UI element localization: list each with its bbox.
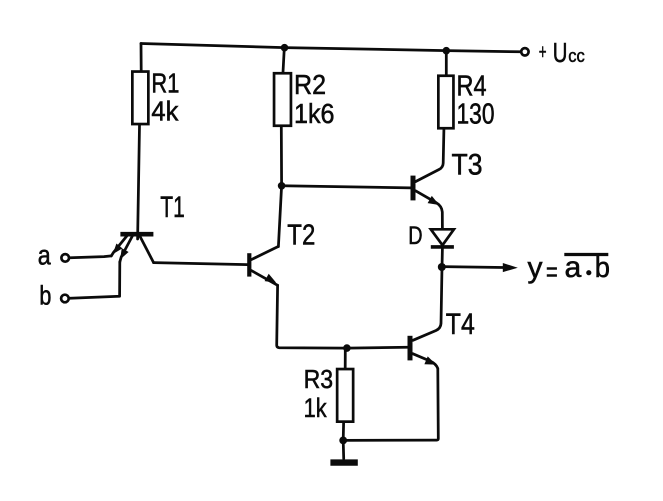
wire R3 bottom to ground node <box>342 423 345 440</box>
label + Ucc <box>539 37 585 68</box>
svg-text:D: D <box>408 222 422 250</box>
svg-text:R3: R3 <box>304 364 334 394</box>
wire R1 top branch <box>140 44 143 71</box>
junction rail-R2 <box>281 44 289 52</box>
svg-text:1k: 1k <box>304 393 327 423</box>
wire node B down to T2 collector <box>278 186 281 247</box>
resistor R2 <box>274 73 291 126</box>
terminal b <box>61 295 69 303</box>
label R3 value 1k <box>304 364 334 423</box>
svg-text:b: b <box>595 252 610 284</box>
svg-text:T3: T3 <box>452 149 483 182</box>
junction node B <box>278 182 286 190</box>
wire output with arrow <box>442 263 518 272</box>
terminal a <box>61 254 69 262</box>
svg-text:T1: T1 <box>160 191 185 224</box>
wire R2 top branch <box>283 48 284 73</box>
wire ground stem <box>342 440 345 458</box>
wire T2 emitter down to node E <box>277 285 347 348</box>
label T4 <box>446 308 475 341</box>
svg-text:4k: 4k <box>151 95 179 126</box>
svg-text:+: + <box>539 41 547 64</box>
label R1 value 4k <box>151 67 179 126</box>
junction ground node <box>339 437 347 445</box>
resistor R4 <box>438 76 453 129</box>
resistor R3 <box>337 369 353 422</box>
junction rail-R4 <box>443 47 451 55</box>
label D <box>408 222 422 250</box>
wire output node down to T4 collector <box>413 267 442 341</box>
wire R4 bottom to T3 collector <box>416 130 444 182</box>
wire T1 collector to T2 base <box>154 263 248 265</box>
wire input a to T1 emitter 1 <box>70 256 111 258</box>
label R2 value 1k6 <box>294 69 335 129</box>
wire input b to T1 emitter 2 <box>70 262 120 298</box>
wire Ucc supply rail <box>141 44 520 52</box>
svg-text:T2: T2 <box>287 219 315 251</box>
wire R1 bottom to T1 base <box>138 126 140 240</box>
label input b <box>39 281 51 311</box>
label R4 value 130 <box>457 71 495 131</box>
svg-text:=: = <box>546 256 558 287</box>
svg-text:1k6: 1k6 <box>294 98 335 129</box>
wire node E to T4 base <box>347 346 408 350</box>
svg-text:U: U <box>553 37 568 68</box>
junction node E <box>343 344 351 352</box>
wire node E down to R3 <box>344 348 347 368</box>
ground <box>330 459 357 465</box>
transistor T2 <box>249 247 278 286</box>
transistor T1 (multi-emitter) <box>111 234 153 262</box>
svg-text:130: 130 <box>457 99 495 131</box>
svg-text:cc: cc <box>568 45 585 66</box>
svg-text:b: b <box>39 281 51 311</box>
wire R4 top branch <box>445 51 448 75</box>
svg-text:R2: R2 <box>294 69 326 100</box>
diode D <box>431 229 454 263</box>
label T1 <box>160 191 185 224</box>
junction output node <box>438 263 446 271</box>
transistor T3 <box>413 176 442 230</box>
wire R2 bottom to node B <box>280 127 283 186</box>
svg-text:a: a <box>38 240 52 271</box>
label y = a.b output <box>528 251 610 287</box>
svg-text:T4: T4 <box>446 308 475 341</box>
label input a <box>38 240 52 271</box>
label T2 <box>287 219 315 251</box>
wire node B to T3 base <box>282 186 411 188</box>
svg-text:R1: R1 <box>151 67 179 98</box>
terminal Ucc <box>521 48 528 55</box>
svg-text:y: y <box>528 251 543 284</box>
transistor T4 <box>343 336 438 441</box>
resistor R1 <box>132 72 148 125</box>
label T3 <box>452 149 483 182</box>
